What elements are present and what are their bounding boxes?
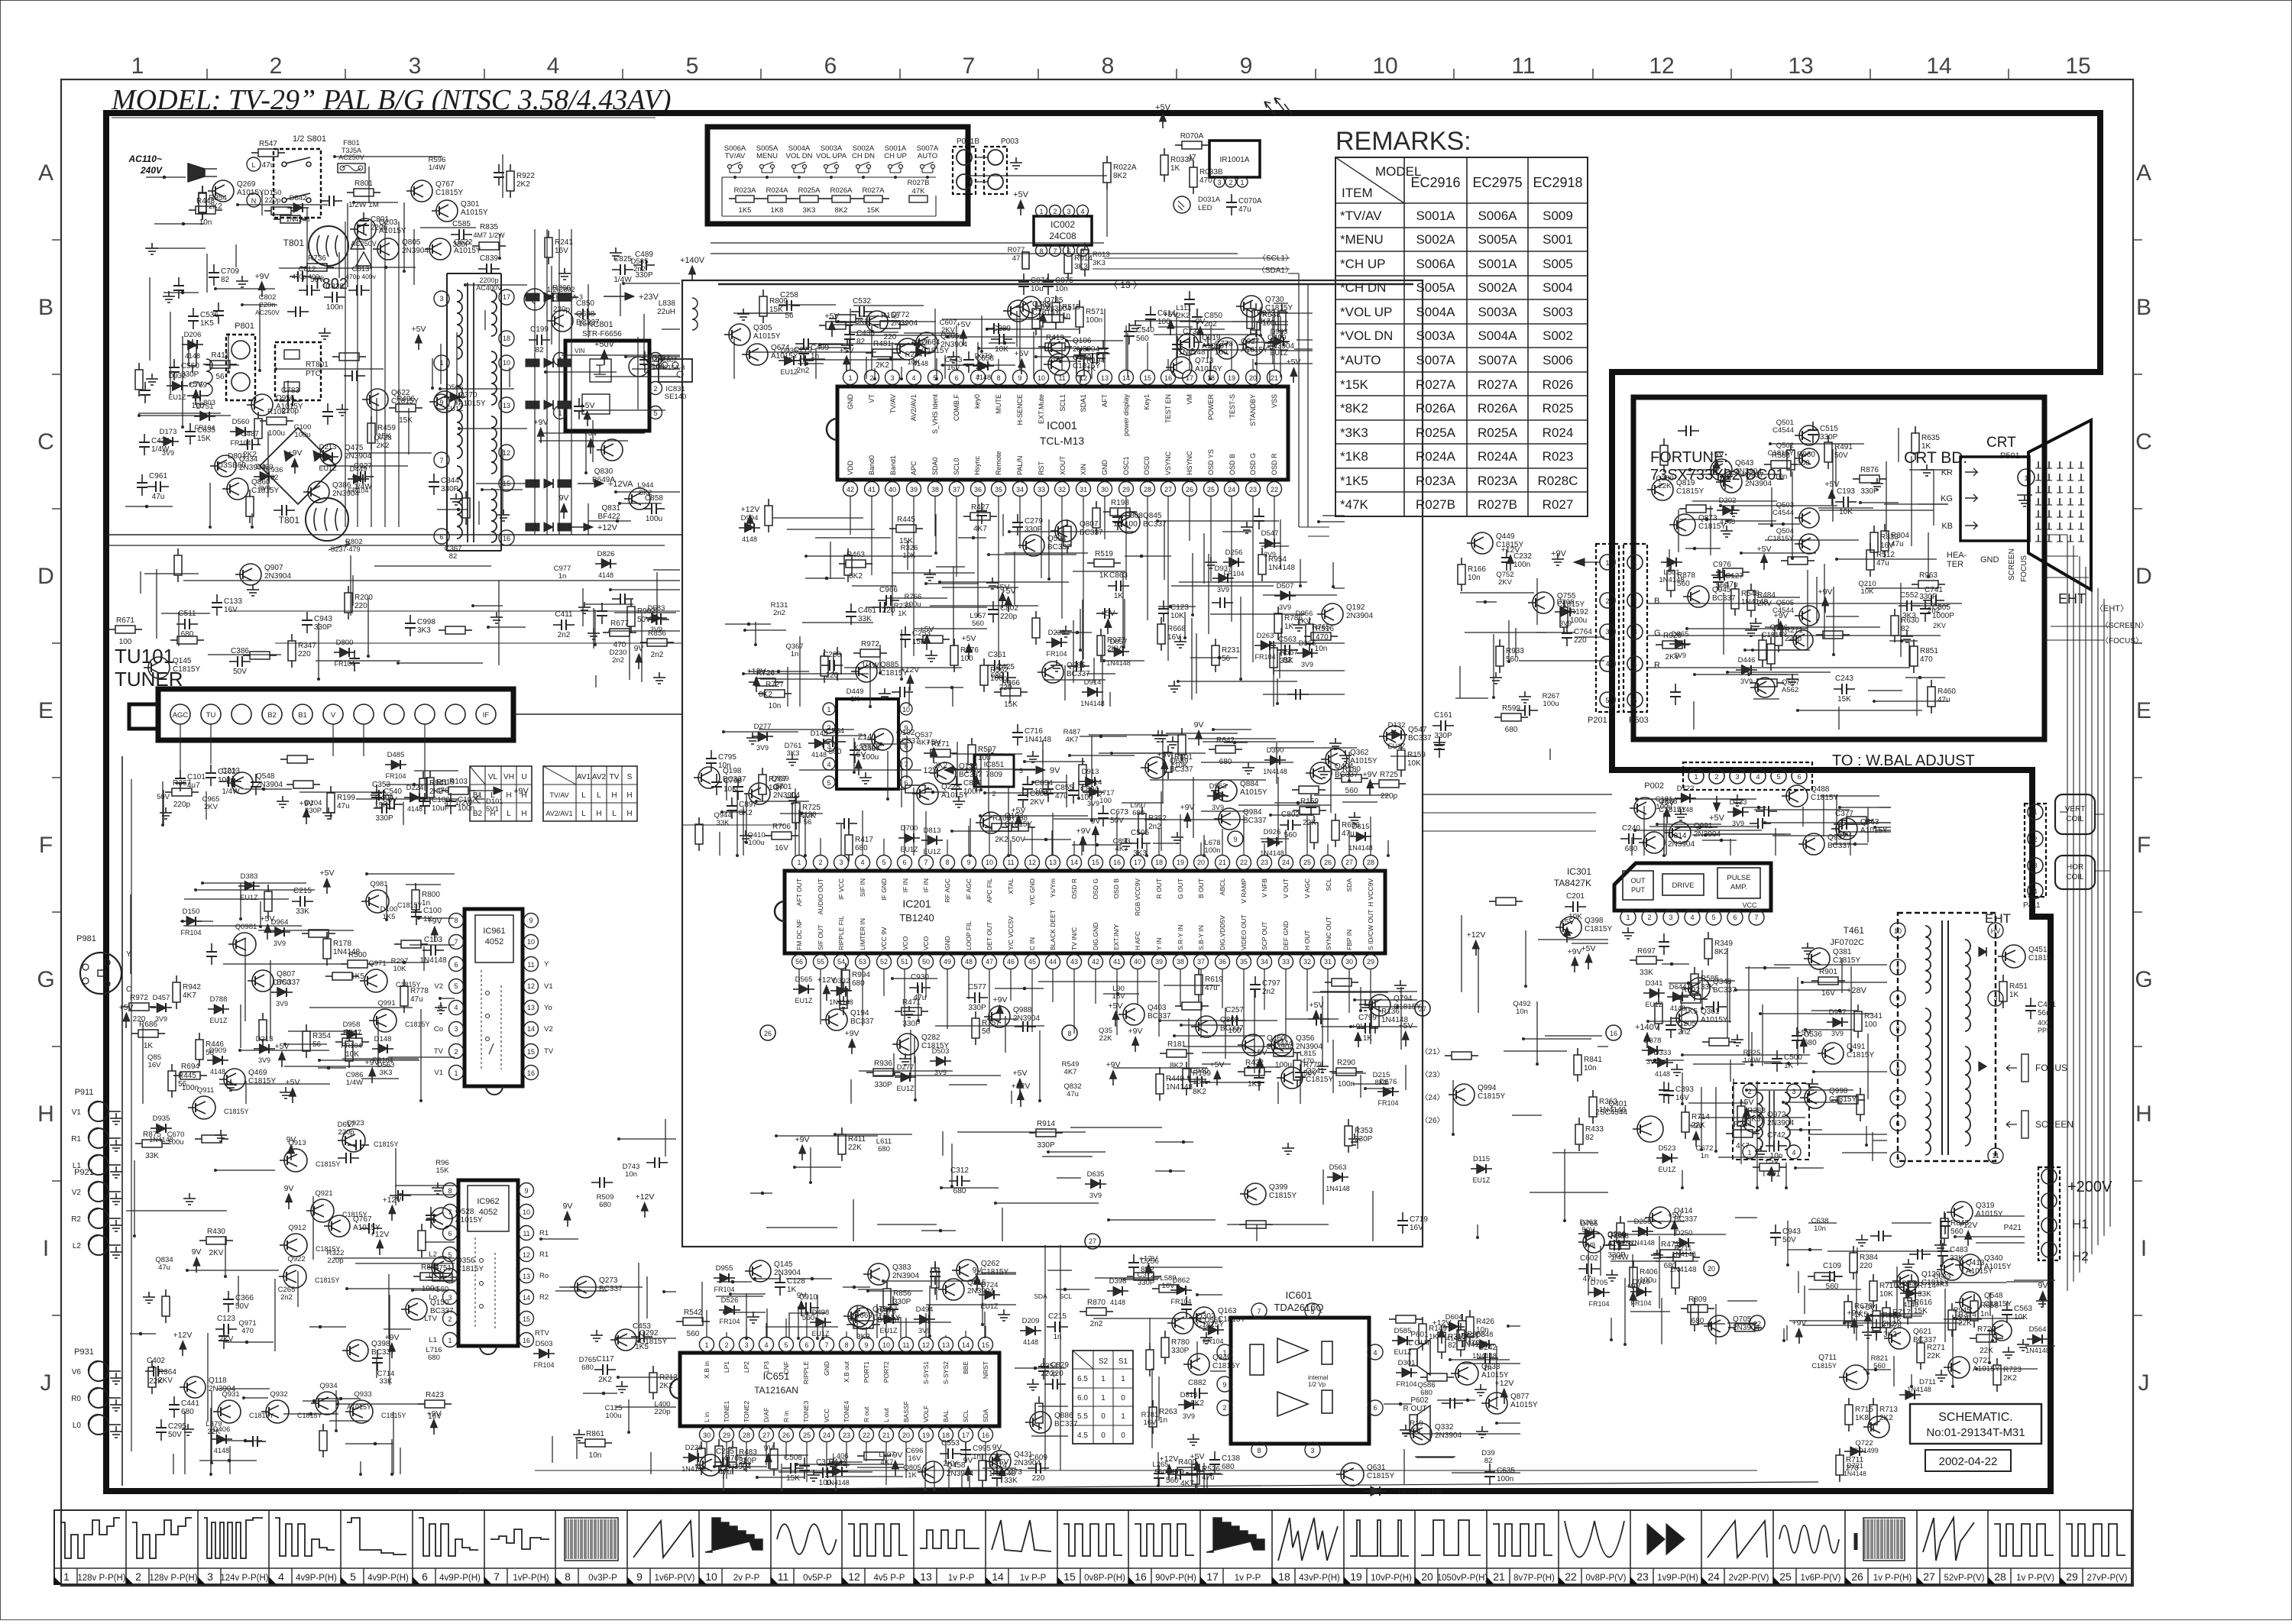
pin 1 xyxy=(449,1066,464,1080)
diode D503 xyxy=(930,1060,936,1062)
wire xyxy=(456,332,458,405)
pin 45 xyxy=(1025,955,1040,969)
svg-text:16V: 16V xyxy=(1113,520,1127,529)
svg-text:11: 11 xyxy=(1992,1152,1999,1160)
power arrow xyxy=(974,1276,981,1284)
pin 4 xyxy=(1685,910,1700,925)
svg-text:3V9: 3V9 xyxy=(756,744,769,752)
CRT funnel xyxy=(2028,420,2091,590)
wire xyxy=(1078,779,1080,798)
wire xyxy=(995,1202,1099,1204)
svg-text:+5V: +5V xyxy=(962,634,976,643)
svg-text:1N4148: 1N4148 xyxy=(1025,736,1051,744)
wire xyxy=(924,1474,926,1490)
svg-text:G OUT: G OUT xyxy=(1177,878,1184,899)
diode D964 xyxy=(269,931,275,933)
ground xyxy=(813,1470,814,1475)
svg-text:P602: P602 xyxy=(1410,1396,1429,1405)
resistor xyxy=(202,186,203,192)
svg-text:26: 26 xyxy=(1324,859,1332,866)
svg-text:47u: 47u xyxy=(1238,205,1251,214)
capacitor C863 xyxy=(1108,585,1116,587)
svg-text:8K2: 8K2 xyxy=(849,572,863,581)
junction xyxy=(602,1392,606,1396)
wire xyxy=(235,244,237,267)
resistor xyxy=(819,325,826,326)
svg-text:560: 560 xyxy=(1136,335,1149,343)
wire xyxy=(1273,647,1274,707)
svg-text:27vP-P(V): 27vP-P(V) xyxy=(2086,1574,2127,1583)
wire xyxy=(1160,1020,1277,1021)
power arrow xyxy=(907,675,914,684)
pin 50 xyxy=(919,955,934,969)
pin 10 xyxy=(900,703,912,715)
svg-text:TER: TER xyxy=(1947,560,1963,569)
svg-text:S ID/CW OUT: S ID/CW OUT xyxy=(1367,910,1374,950)
pin 13 xyxy=(499,397,514,412)
svg-text:4K7: 4K7 xyxy=(1064,1068,1077,1076)
svg-text:V AGC: V AGC xyxy=(1303,878,1311,898)
T461 secondary winding xyxy=(1965,940,1970,1031)
svg-text:D173: D173 xyxy=(160,428,177,436)
svg-text:28: 28 xyxy=(1994,1571,2006,1583)
svg-text:+5V: +5V xyxy=(1155,103,1171,112)
svg-text:128v P-P(H): 128v P-P(H) xyxy=(77,1574,125,1583)
wire bus top of IC001 xyxy=(718,283,1413,285)
svg-text:100: 100 xyxy=(1099,797,1112,805)
wire xyxy=(406,884,441,885)
svg-text:R181: R181 xyxy=(1167,1040,1186,1049)
diode D566 xyxy=(444,396,450,398)
power arrow xyxy=(264,924,271,933)
pin 4 xyxy=(856,856,870,870)
svg-text:I: I xyxy=(2141,1236,2147,1261)
wire xyxy=(1884,503,1948,505)
svg-text:EU1Z: EU1Z xyxy=(900,846,918,853)
svg-text:R in: R in xyxy=(782,1411,790,1422)
svg-text:C100: C100 xyxy=(423,907,442,915)
svg-text:1N4148: 1N4148 xyxy=(1844,1470,1866,1477)
svg-text:1: 1 xyxy=(558,409,562,417)
wire xyxy=(260,901,261,927)
resistor xyxy=(1239,1224,1246,1225)
svg-text:C658: C658 xyxy=(976,354,994,363)
waveform cell 10 xyxy=(770,1510,772,1584)
pin 4 xyxy=(449,1001,464,1015)
resistor xyxy=(1679,508,1686,510)
svg-text:14: 14 xyxy=(1122,374,1130,382)
wire xyxy=(156,569,157,639)
transistor Q701 xyxy=(749,783,770,804)
svg-text:220: 220 xyxy=(884,333,897,341)
svg-text:C940: C940 xyxy=(1190,1067,1209,1076)
svg-text:AUDIO OUT: AUDIO OUT xyxy=(817,878,824,914)
svg-text:44: 44 xyxy=(1049,958,1057,966)
svg-text:TV: TV xyxy=(544,1047,554,1056)
svg-text:C850: C850 xyxy=(576,299,594,308)
svg-text:+12V: +12V xyxy=(1012,1082,1031,1091)
svg-text:10K: 10K xyxy=(1174,762,1188,770)
wire xyxy=(1372,1191,1374,1241)
wire xyxy=(928,1305,930,1338)
wire xyxy=(1070,755,1135,756)
resistor R519 xyxy=(1087,562,1094,564)
svg-text:AMP.: AMP. xyxy=(1730,883,1747,891)
wire xyxy=(1183,1046,1272,1047)
pin 7 xyxy=(1749,910,1764,925)
wire xyxy=(388,1056,455,1058)
svg-text:S001A: S001A xyxy=(1416,209,1455,223)
svg-text:50V: 50V xyxy=(1303,1069,1317,1078)
svg-text:4148: 4148 xyxy=(976,374,991,381)
power arrow xyxy=(799,1145,806,1153)
svg-text:12: 12 xyxy=(503,449,510,457)
wire xyxy=(908,687,910,707)
svg-text:R156: R156 xyxy=(881,312,899,320)
transistor Q241 xyxy=(1281,1067,1303,1089)
flyback transformer T461 dashed box xyxy=(1898,913,1996,1161)
wire xyxy=(726,780,727,801)
svg-text:42: 42 xyxy=(1092,958,1099,966)
+5V arrow xyxy=(1160,113,1167,121)
power arrow xyxy=(1132,1037,1139,1045)
svg-text:560: 560 xyxy=(829,748,842,756)
svg-text:35: 35 xyxy=(1240,958,1248,966)
svg-text:C103: C103 xyxy=(424,936,442,944)
waveform cell 25 xyxy=(1844,1510,1846,1584)
resistor R484 xyxy=(1750,584,1752,590)
svg-text:4: 4 xyxy=(1633,660,1636,668)
svg-text:S-SYS2: S-SYS2 xyxy=(942,1361,950,1385)
svg-text:VCC: VCC xyxy=(823,1409,830,1422)
pin 38 xyxy=(928,482,943,497)
svg-text:R496: R496 xyxy=(397,395,415,403)
wire xyxy=(594,610,596,645)
svg-text:560: 560 xyxy=(972,620,984,628)
wire xyxy=(429,1279,455,1281)
wire xyxy=(1730,839,1731,856)
ic IC962 4052 xyxy=(458,1180,518,1346)
wire xyxy=(820,344,843,345)
svg-text:10: 10 xyxy=(527,938,535,946)
svg-text:APC: APC xyxy=(910,461,918,475)
svg-text:〈 13 〉: 〈 13 〉 xyxy=(1109,280,1142,290)
svg-text:1N4148: 1N4148 xyxy=(286,215,310,223)
svg-text:+5V: +5V xyxy=(320,869,335,878)
wire xyxy=(876,1304,878,1338)
wire xyxy=(941,1187,999,1189)
svg-text:TV: TV xyxy=(434,1047,444,1056)
power arrow xyxy=(1313,1011,1319,1019)
transistor Q785 xyxy=(1020,296,1041,318)
svg-text:4: 4 xyxy=(1895,1065,1899,1072)
svg-text:18: 18 xyxy=(942,1432,950,1439)
svg-text:6: 6 xyxy=(824,53,837,79)
transistor Q451 xyxy=(2002,945,2025,968)
wire xyxy=(1400,987,1402,1050)
svg-text:Q807: Q807 xyxy=(277,970,296,979)
IR receiver IR1001A xyxy=(1209,141,1260,177)
svg-text:R656: R656 xyxy=(1342,821,1360,830)
wire xyxy=(1121,1279,1158,1280)
junction xyxy=(1096,352,1100,356)
wire xyxy=(1405,1065,1407,1090)
svg-text:C215: C215 xyxy=(293,887,312,895)
transistor Q203 xyxy=(354,218,376,240)
wire xyxy=(1294,348,1313,350)
svg-text:R027: R027 xyxy=(1543,497,1574,512)
wire xyxy=(173,1454,174,1474)
power arrow xyxy=(1145,1264,1152,1273)
svg-text:6.0: 6.0 xyxy=(1077,1394,1088,1402)
svg-text:Q362: Q362 xyxy=(1350,749,1369,757)
diode L501 xyxy=(1661,561,1667,563)
capacitor C257 xyxy=(1224,1020,1232,1021)
wire xyxy=(1279,312,1313,314)
svg-text:100: 100 xyxy=(652,363,665,371)
capacitor xyxy=(1287,694,1296,695)
svg-text:+5V: +5V xyxy=(1210,1060,1225,1069)
transistor Q106 xyxy=(1048,337,1070,358)
svg-text:11: 11 xyxy=(1511,53,1535,79)
transistor Q643 xyxy=(1711,459,1732,480)
resistor xyxy=(1716,571,1723,573)
svg-text:P421: P421 xyxy=(2004,1224,2022,1232)
wire xyxy=(942,1131,944,1156)
pin 22 xyxy=(1267,482,1282,497)
svg-text:R2: R2 xyxy=(539,1293,549,1302)
resistor xyxy=(192,339,193,346)
svg-text:14: 14 xyxy=(1070,859,1078,866)
transistor Q594 xyxy=(1023,535,1044,556)
wire xyxy=(1280,350,1313,351)
svg-text:6.5: 6.5 xyxy=(1077,1375,1088,1383)
ic IC002 24C08 xyxy=(1034,216,1092,245)
capacitor C808 xyxy=(1117,509,1118,517)
svg-text:1: 1 xyxy=(1101,1375,1106,1383)
power arrow xyxy=(843,356,850,364)
pin 6 xyxy=(1368,1400,1383,1415)
svg-text:1K: 1K xyxy=(1284,623,1294,631)
svg-text:H AFC: H AFC xyxy=(1134,931,1141,950)
capacitor xyxy=(430,1207,432,1215)
svg-text:Q203: Q203 xyxy=(379,218,398,227)
wire xyxy=(803,359,905,361)
transistor Q998 xyxy=(1805,1087,1826,1108)
wire xyxy=(1357,1126,1358,1149)
resistor R576 xyxy=(953,639,955,645)
wire xyxy=(541,1238,578,1240)
svg-text:Q991: Q991 xyxy=(377,999,395,1008)
svg-text:H: H xyxy=(521,791,526,800)
svg-text:6: 6 xyxy=(1895,1120,1899,1127)
wire xyxy=(952,830,1012,832)
resistor xyxy=(302,933,309,934)
diode D228 xyxy=(683,1457,689,1458)
svg-text:+5V: +5V xyxy=(261,914,275,924)
resistor R669 xyxy=(847,1324,853,1325)
pin 1 xyxy=(1688,768,1704,784)
capacitor xyxy=(981,503,983,511)
capacitor C768 xyxy=(716,774,717,782)
wire xyxy=(1332,1040,1334,1093)
junction xyxy=(939,1229,943,1233)
transistor Q698 xyxy=(552,310,573,332)
svg-text:R026A: R026A xyxy=(830,186,853,195)
wire xyxy=(1095,1277,1160,1279)
svg-text:VCO: VCO xyxy=(922,936,930,950)
transistor Q767 xyxy=(411,180,432,202)
wire xyxy=(1039,1030,1041,1101)
wire xyxy=(1248,341,1288,343)
svg-text:R013: R013 xyxy=(1093,251,1110,259)
svg-text:1: 1 xyxy=(797,859,801,866)
capacitor C511 xyxy=(176,623,185,625)
svg-text:R136: R136 xyxy=(1381,1008,1400,1016)
resistor R159 xyxy=(1400,743,1402,750)
wire xyxy=(140,571,141,594)
wire xyxy=(787,529,875,530)
transistor Q538 xyxy=(1634,797,1656,819)
transistor Q873 xyxy=(1674,514,1695,535)
tuner pin 2 xyxy=(231,704,251,724)
wire xyxy=(1112,752,1206,754)
wire xyxy=(926,583,979,584)
svg-text:R736: R736 xyxy=(308,254,326,263)
wire xyxy=(1314,794,1390,796)
svg-text:10n: 10n xyxy=(199,218,212,227)
capacitor xyxy=(1258,508,1260,516)
ground xyxy=(564,268,565,273)
svg-text:C1815Y: C1815Y xyxy=(315,1276,340,1284)
capacitor C802 xyxy=(1280,824,1288,826)
svg-text:9: 9 xyxy=(864,1341,868,1349)
svg-text:R547: R547 xyxy=(259,140,277,148)
wire xyxy=(1692,500,1777,502)
transistor Q503 xyxy=(1799,508,1819,528)
wire xyxy=(853,1199,854,1241)
resistor R199 xyxy=(1186,1062,1187,1069)
pin 48 xyxy=(962,955,976,969)
resistor xyxy=(1770,637,1772,644)
pin 6 xyxy=(950,370,964,385)
ground xyxy=(1135,320,1136,325)
wire xyxy=(1710,506,1711,555)
svg-text:R1: R1 xyxy=(539,1229,549,1237)
svg-text:C532: C532 xyxy=(853,297,871,306)
svg-text:SDA1: SDA1 xyxy=(1080,394,1087,412)
waveform cell 17 xyxy=(1271,1510,1273,1584)
svg-text:9: 9 xyxy=(1222,1381,1226,1389)
resistor R459 xyxy=(371,416,372,423)
wire xyxy=(957,1131,1086,1133)
wire xyxy=(251,513,253,527)
pin 4 xyxy=(1627,656,1643,671)
svg-text:R538: R538 xyxy=(1262,311,1280,319)
svg-text:+5V: +5V xyxy=(189,380,203,389)
T461 core xyxy=(1941,920,1943,1155)
transistor Q138 xyxy=(934,762,956,784)
svg-text:RIPPLE FIL: RIPPLE FIL xyxy=(837,916,845,950)
resistor xyxy=(274,218,280,220)
svg-text:V: V xyxy=(331,711,336,720)
transistor Q282 xyxy=(897,1034,918,1055)
ic IC831 SE140 xyxy=(659,359,692,382)
capacitor xyxy=(1212,602,1220,603)
svg-text:S.B-Y IN: S.B-Y IN xyxy=(1197,925,1205,950)
svg-text:2: 2 xyxy=(1222,1404,1226,1412)
antenna lightning arrows xyxy=(1264,102,1275,115)
wire xyxy=(240,1050,329,1051)
svg-text:D449: D449 xyxy=(350,465,367,474)
transistor Q460 xyxy=(1242,1034,1264,1056)
svg-text:IC301: IC301 xyxy=(1567,866,1591,877)
resistor R159 xyxy=(1293,810,1300,811)
pin 16 xyxy=(1161,370,1176,385)
svg-text:S006A: S006A xyxy=(1478,209,1517,223)
+9V arrow xyxy=(1574,558,1585,566)
power arrow xyxy=(415,335,422,343)
wire xyxy=(395,1148,397,1205)
wire xyxy=(1770,443,1864,445)
svg-text:C797: C797 xyxy=(1262,979,1280,988)
svg-text:L2: L2 xyxy=(73,1242,82,1250)
capacitor C361 xyxy=(986,665,995,666)
svg-text:4: 4 xyxy=(860,859,864,866)
svg-text:IC961: IC961 xyxy=(483,927,505,936)
wire xyxy=(391,1439,393,1474)
resistor R547 xyxy=(335,1041,342,1043)
wire xyxy=(1193,349,1288,351)
svg-text:C435: C435 xyxy=(856,329,875,338)
junction xyxy=(1076,631,1080,635)
capacitor C709 xyxy=(213,264,215,273)
svg-text:39: 39 xyxy=(1155,958,1163,966)
wire xyxy=(719,832,720,856)
wire xyxy=(1011,1091,1012,1104)
pin 19 xyxy=(1174,856,1188,870)
wire xyxy=(1666,824,1667,856)
svg-text:X.B in: X.B in xyxy=(703,1361,711,1379)
capacitor xyxy=(872,607,880,608)
wire xyxy=(957,742,958,786)
svg-text:P503: P503 xyxy=(1629,716,1649,725)
junction xyxy=(1853,843,1857,846)
resistor R451 1K xyxy=(2002,975,2004,982)
wire xyxy=(1271,747,1357,749)
wire xyxy=(1866,587,1919,589)
svg-text:10: 10 xyxy=(1894,927,1902,935)
svg-text:5: 5 xyxy=(454,982,458,990)
wire xyxy=(238,204,328,205)
pin 54 xyxy=(834,955,849,969)
capacitor C553 xyxy=(940,1453,948,1454)
junction xyxy=(1396,1005,1400,1009)
svg-text:15K: 15K xyxy=(899,537,913,545)
svg-text:31: 31 xyxy=(1080,486,1087,493)
capacitor C377 xyxy=(1834,823,1842,825)
svg-text:1: 1 xyxy=(1626,914,1630,921)
svg-text:TV IN/C: TV IN/C xyxy=(1070,927,1078,950)
svg-text:6: 6 xyxy=(804,1341,808,1349)
transistor Q991 xyxy=(374,1009,397,1032)
wire xyxy=(818,347,847,348)
power arrow xyxy=(180,1341,186,1349)
ground xyxy=(931,650,932,655)
resistor xyxy=(249,490,251,497)
svg-text:TU101: TU101 xyxy=(115,645,174,668)
pin 10 xyxy=(499,355,514,370)
